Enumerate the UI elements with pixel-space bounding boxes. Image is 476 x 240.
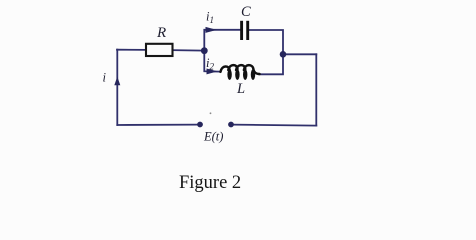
E(t) terminal dot right — [228, 122, 234, 128]
wire bottom left to E(t) — [117, 124, 198, 126]
svg-text:E(t): E(t) — [203, 130, 223, 144]
wire inductor branch left drop — [204, 51, 219, 72]
svg-text:L: L — [236, 81, 245, 97]
inductor L coil — [221, 65, 260, 74]
wire bottom right from E(t) — [232, 125, 316, 126]
capacitor C plates — [242, 21, 248, 40]
node B junction dot — [280, 51, 287, 58]
wire node B to right — [283, 53, 316, 55]
arrow i1 (right) — [206, 27, 217, 33]
wire top-left horizontal (R branch) — [117, 49, 146, 51]
wire inductor branch right — [260, 54, 284, 74]
switch tick above E(t) — [210, 112, 212, 114]
svg-text:Figure 2: Figure 2 — [179, 173, 241, 193]
node A junction dot — [201, 47, 208, 54]
wire capacitor branch right — [249, 30, 283, 54]
svg-text:C: C — [241, 4, 251, 20]
svg-text:i: i — [103, 71, 107, 85]
resistor R body — [146, 44, 173, 56]
arrow i2 (right) — [207, 69, 218, 75]
wire left vertical — [116, 50, 118, 125]
wire right vertical — [315, 54, 317, 125]
wire capacitor branch left riser — [204, 30, 240, 51]
E(t) terminal dot left — [197, 122, 203, 128]
arrow i (left, up) — [114, 77, 120, 86]
svg-text:R: R — [156, 25, 166, 41]
